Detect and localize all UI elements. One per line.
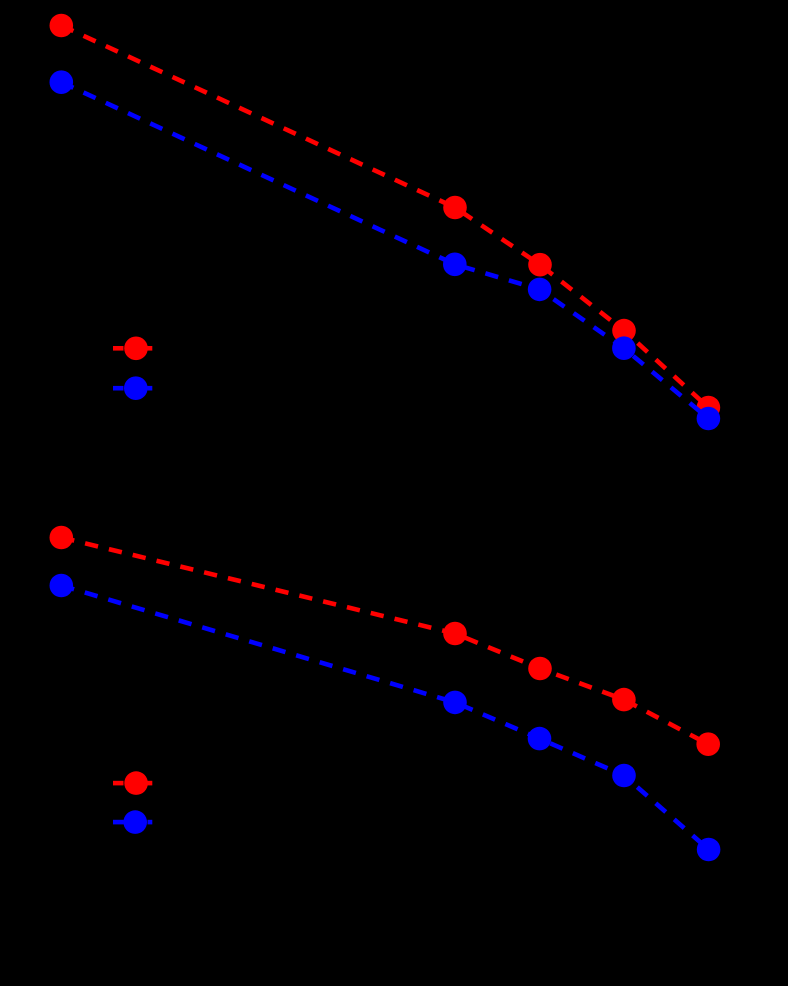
- bottom subplot blue markers: [50, 574, 721, 862]
- top legend red sample: [113, 337, 152, 361]
- bottom legend red sample: [113, 771, 152, 795]
- top subplot red markers: [50, 14, 721, 420]
- bottom subplot red series dashed line: [61, 538, 708, 745]
- top subplot red series dashed line: [61, 26, 708, 408]
- bottom legend blue sample: [113, 810, 152, 834]
- top subplot blue series dashed line: [61, 82, 708, 418]
- bottom subplot blue series dashed line: [61, 586, 708, 850]
- top legend blue sample: [113, 376, 152, 400]
- bottom subplot red markers: [50, 526, 721, 756]
- top subplot blue markers: [50, 70, 721, 430]
